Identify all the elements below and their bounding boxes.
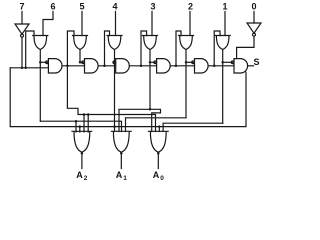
wire W_A stub into A2 (1): [83, 115, 85, 133]
AND E: [195, 59, 209, 73]
AND F (S output): [234, 59, 248, 73]
wire inverter0 output to AND F: [237, 36, 254, 58]
wire H3 output drop: [149, 50, 151, 110]
svg-text:0: 0: [160, 175, 164, 182]
node E7 junction: [21, 67, 24, 70]
gate H3: [143, 36, 158, 50]
AND D: [157, 59, 171, 73]
AND C: [116, 59, 130, 73]
OR gate A1: [111, 131, 131, 152]
svg-text:2: 2: [84, 175, 88, 182]
svg-text:A: A: [76, 170, 83, 180]
svg-text:5: 5: [79, 2, 84, 12]
wire input 2: [189, 12, 191, 36]
wire inverter7 output: [21, 37, 23, 68]
wire E7 horizontal into AND A: [10, 67, 48, 69]
wire H4 output drop into A1: [114, 50, 116, 132]
OR gate A2: [72, 131, 92, 152]
wire H5 tap to AND B: [80, 61, 83, 63]
wire hook gate H3: [141, 31, 147, 66]
wire H2 tap to AND E: [186, 61, 193, 63]
svg-text:1: 1: [222, 2, 227, 12]
svg-text:4: 4: [112, 2, 117, 12]
wire H6 tap to AND A: [40, 61, 47, 63]
node H3 T-junction: [149, 108, 152, 111]
inverter on input 7: [15, 24, 29, 34]
wire input 6 (jog left into gate): [43, 12, 53, 36]
node bus/A0: [158, 125, 161, 128]
gate H4: [107, 36, 122, 50]
wire H1 output drop: [222, 50, 224, 124]
wire H3 right arm to A0: [150, 109, 161, 131]
wire H6 bus to A1: [40, 121, 121, 131]
wire chain AND E out: [208, 65, 234, 67]
wire hook gate H4: [105, 31, 110, 66]
wire W_A stub into A2 (2): [87, 115, 89, 133]
wire input 0: [253, 12, 255, 24]
wire H3 tap to AND D: [150, 61, 155, 63]
wire hook gate H6: [26, 31, 34, 68]
node bus/H4 crossing: [113, 125, 116, 128]
AND B: [85, 59, 99, 73]
wire input 3: [151, 12, 153, 36]
AND A: [48, 59, 62, 73]
wire A2 output: [81, 152, 83, 168]
svg-text:0: 0: [251, 2, 256, 12]
gate H1: [215, 36, 230, 50]
wire H2 to A1: [126, 118, 187, 132]
wire H6 stub into A2: [75, 121, 77, 132]
svg-text:3: 3: [150, 2, 155, 12]
OR gate A0: [148, 131, 168, 152]
wire H6 output drop: [39, 50, 41, 122]
wire H4 tap to AND C: [114, 61, 116, 63]
inverter on input 0: [247, 23, 261, 33]
wire input 5: [81, 12, 83, 36]
wire hook gate H2: [176, 31, 181, 66]
wire chain AND D out: [170, 65, 194, 67]
svg-text:6: 6: [50, 2, 55, 12]
wire hook gate H5: [67, 31, 74, 66]
svg-text:2: 2: [188, 2, 193, 12]
wire chain AND A out: [62, 65, 84, 67]
wire H2 output drop: [185, 50, 187, 118]
wire bus stub into A0: [158, 127, 160, 132]
node H6/A2 stub: [75, 120, 78, 123]
wire bus stub into A2: [79, 127, 81, 132]
svg-text:7: 7: [19, 2, 24, 12]
svg-text:A: A: [153, 170, 160, 180]
wire H3 left arm to A1: [119, 109, 150, 131]
wire S output: [248, 65, 254, 67]
wire H5 output drop: [79, 50, 81, 63]
wire H1 tap to AND F: [223, 61, 233, 63]
gate H6: [33, 36, 48, 50]
wire A0 output: [157, 152, 159, 168]
wire E7 left drop to bottom bus: [10, 68, 246, 127]
svg-text:1: 1: [123, 175, 127, 182]
wire chain branch staircase (W_A): [67, 66, 155, 132]
wire input 7: [21, 12, 23, 25]
wire chain AND C out: [129, 65, 156, 67]
svg-text:A: A: [116, 170, 123, 180]
node bus/A2: [79, 125, 82, 128]
wire H1 to A0: [163, 123, 223, 131]
node W_A tap A2 second: [87, 113, 90, 116]
node W_A tap A2 first: [83, 113, 86, 116]
gate H2: [179, 36, 194, 50]
svg-text:S: S: [253, 57, 259, 67]
wire chain AND B out: [98, 65, 116, 67]
wire A1 output: [120, 152, 122, 168]
wire hook gate H1: [214, 31, 220, 66]
wire input 1: [224, 12, 226, 36]
gate H5: [73, 36, 88, 50]
wire input 4: [115, 12, 117, 36]
